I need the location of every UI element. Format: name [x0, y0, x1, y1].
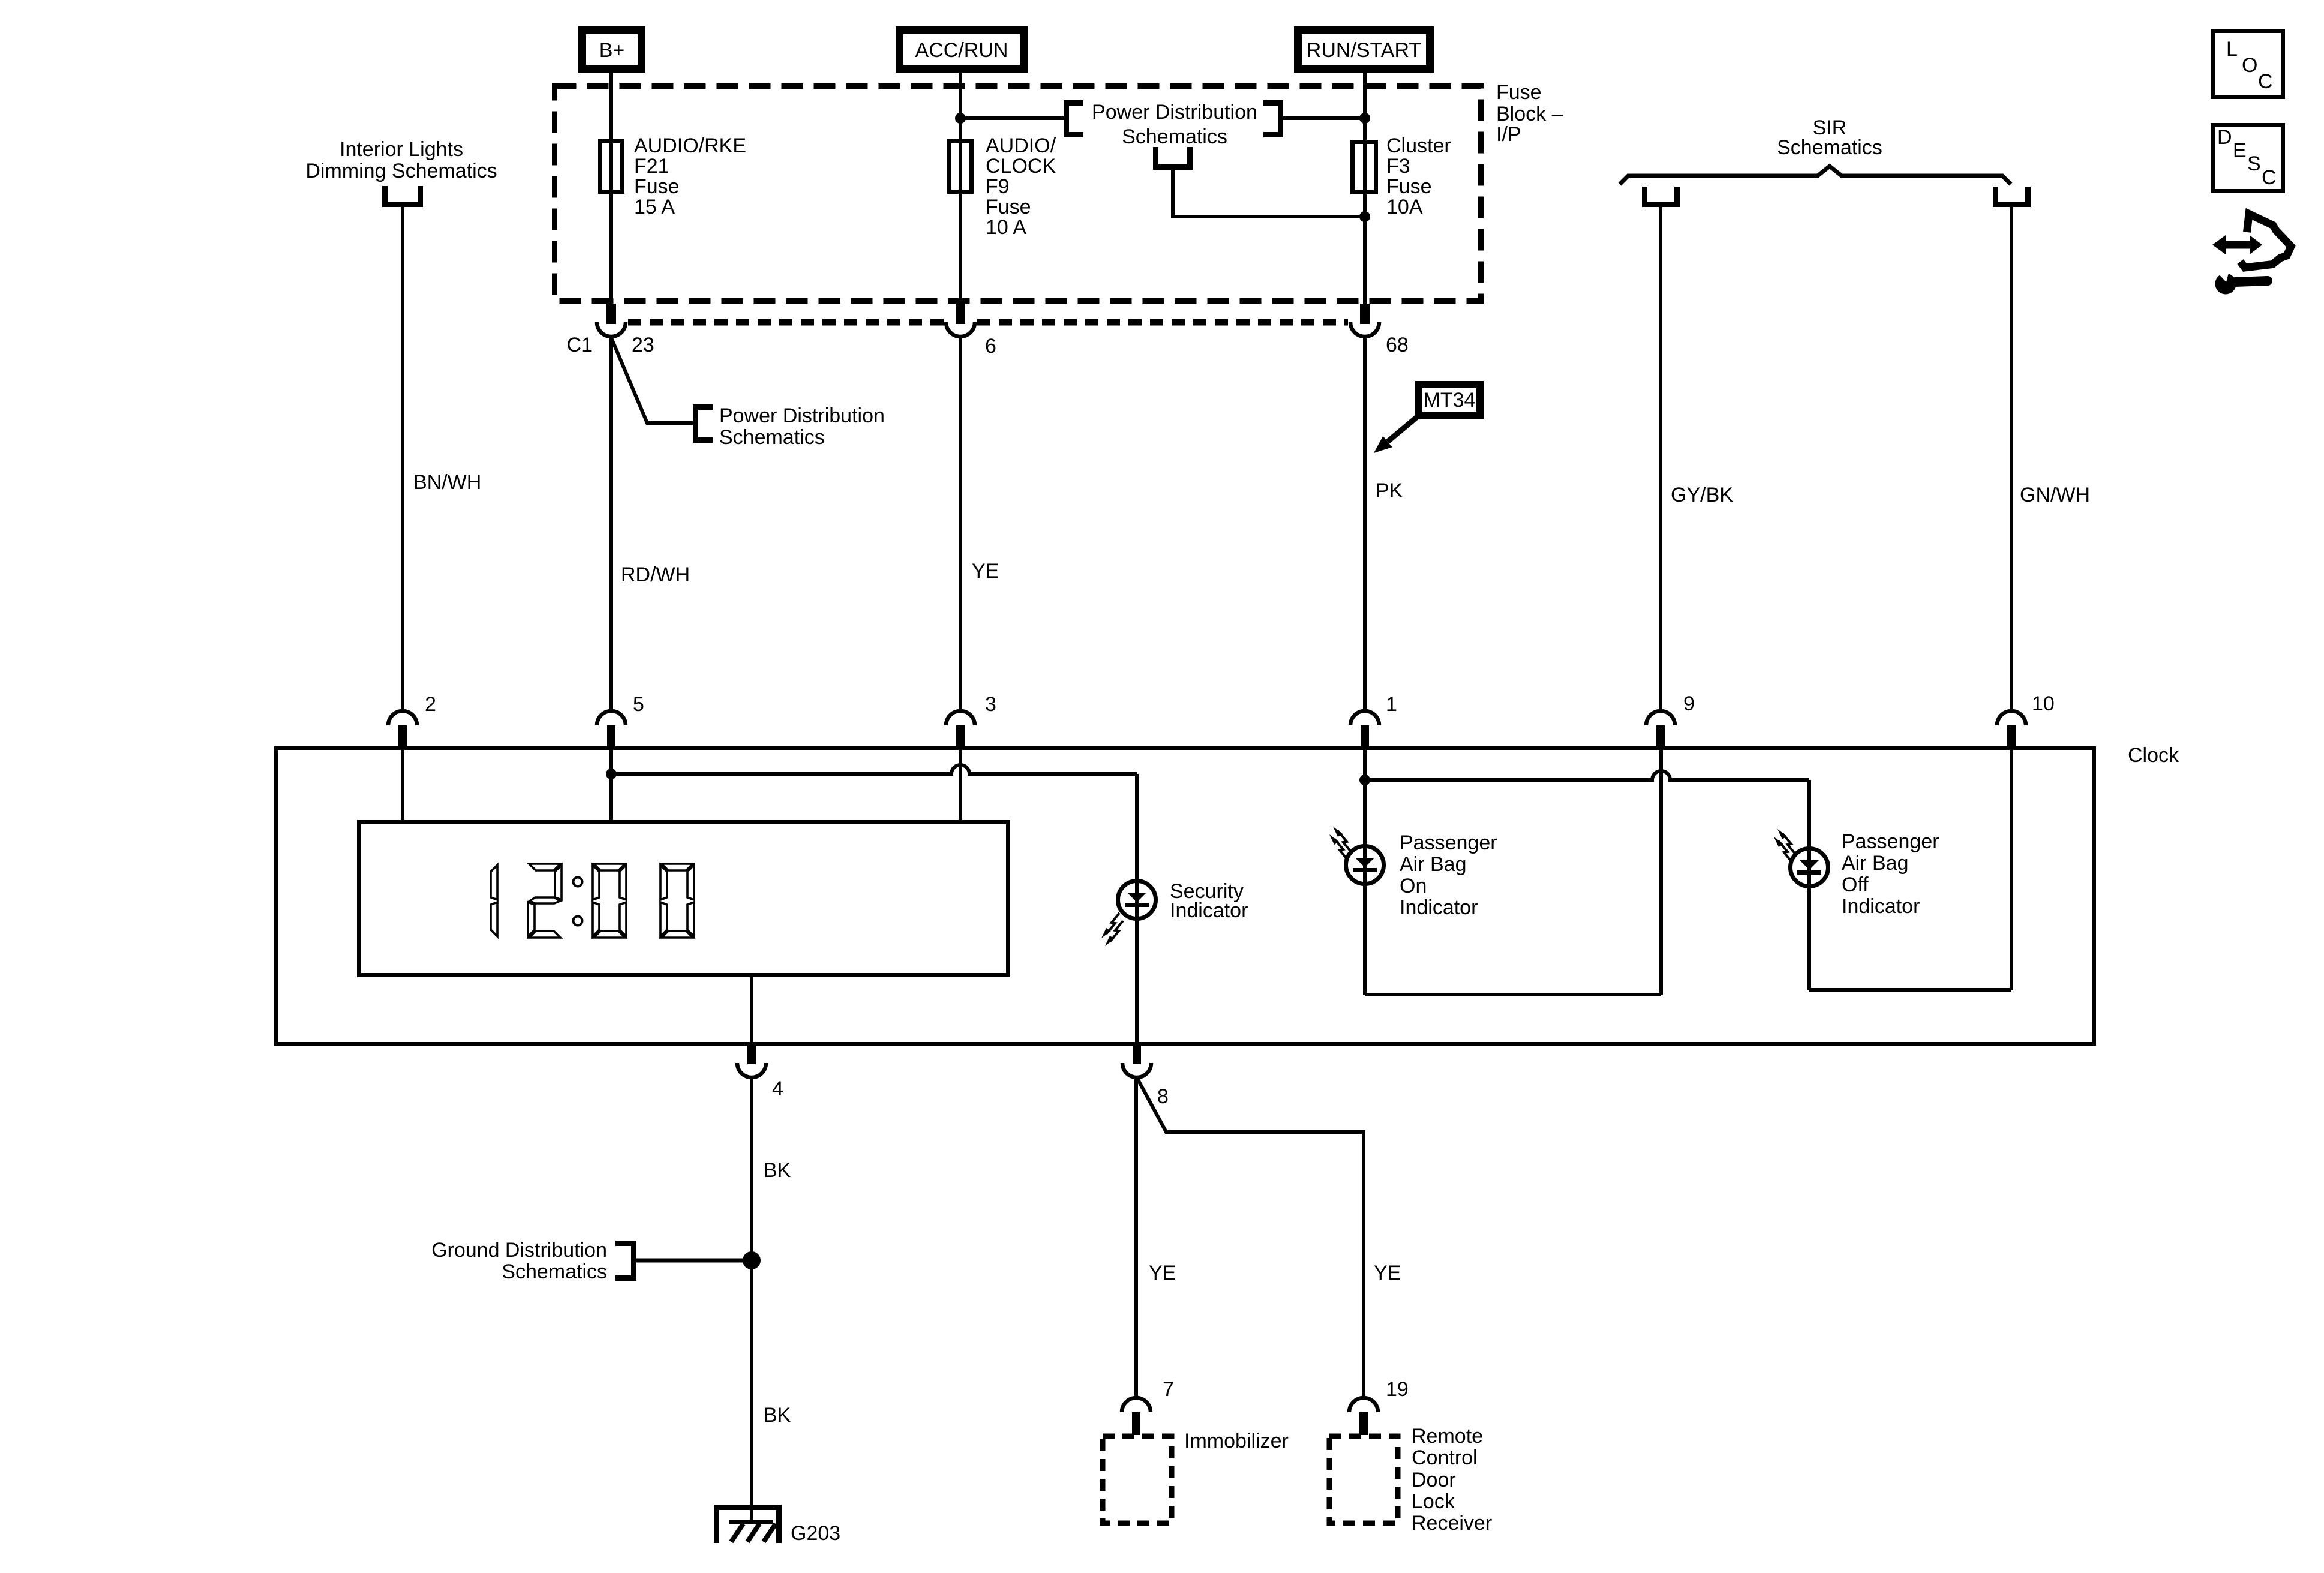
- bracket ground distribution: [615, 1244, 634, 1278]
- svg-text:Indicator: Indicator: [1400, 896, 1478, 919]
- bracket power distribution schematics mid: [696, 407, 713, 440]
- pin 9 clock terminal: [1646, 692, 1695, 747]
- label Security Indicator: [1170, 880, 1248, 922]
- svg-text:CLOCK: CLOCK: [986, 155, 1056, 178]
- label Interior Lights Dimming Schematics: [305, 138, 497, 182]
- pin 2 clock terminal: [388, 693, 436, 747]
- svg-text:Control: Control: [1412, 1446, 1478, 1469]
- svg-text:68: 68: [1386, 334, 1409, 356]
- wire air bag on loop bottom to pin 9: [1365, 993, 1661, 996]
- svg-text:BN/WH: BN/WH: [413, 471, 481, 494]
- LED passenger air bag off indicator: [1791, 849, 1828, 887]
- clock module box: [276, 744, 2179, 1044]
- svg-text:9: 9: [1683, 692, 1695, 715]
- label SIR Schematics: [1777, 116, 1882, 159]
- svg-text:7: 7: [1163, 1378, 1174, 1401]
- pin 8 clock terminal: [1122, 1046, 1169, 1108]
- node junction pin 5 branch: [606, 769, 617, 779]
- seven segment digit 3: [593, 864, 626, 938]
- wire BN/WH interior lights to pin 2: [401, 207, 404, 712]
- svg-text:Schematics: Schematics: [1122, 125, 1227, 148]
- LED security indicator: [1118, 881, 1156, 919]
- svg-text:1: 1: [1386, 693, 1397, 716]
- svg-text:GY/BK: GY/BK: [1671, 484, 1733, 506]
- svg-text:Remote: Remote: [1412, 1425, 1483, 1448]
- colon: [574, 878, 582, 926]
- svg-text:Schematics: Schematics: [719, 426, 825, 449]
- svg-text:Passenger: Passenger: [1842, 830, 1939, 853]
- svg-text:Schematics: Schematics: [502, 1260, 607, 1283]
- pin C1-6 connector terminal: [946, 304, 996, 358]
- pin 4 clock terminal: [737, 1046, 783, 1100]
- label GN/WH: [2020, 484, 2090, 506]
- wire GY/BK to pin 9: [1659, 207, 1662, 712]
- svg-text:Lock: Lock: [1412, 1490, 1455, 1513]
- label PK: [1376, 479, 1403, 502]
- LED passenger air bag on indicator: [1346, 846, 1384, 884]
- bracket left power distribution: [1067, 103, 1084, 135]
- wire security indicator branch: [1135, 774, 1139, 1044]
- wire pin 3 to display: [959, 748, 962, 820]
- wire pin 2 to display: [401, 748, 404, 820]
- svg-text:Door: Door: [1412, 1469, 1456, 1491]
- pin 10 clock terminal: [1997, 692, 2055, 747]
- label Power Distribution Schematics mid: [719, 404, 885, 449]
- bracket cup SIR left: [1645, 187, 1677, 205]
- svg-text:Schematics: Schematics: [1777, 136, 1882, 159]
- svg-text:19: 19: [1386, 1378, 1409, 1401]
- wire bracket to BK wire: [636, 1259, 752, 1263]
- fuse F3 Cluster 10A: [1353, 134, 1451, 218]
- svg-text:6: 6: [985, 335, 996, 358]
- wire to power distribution bracket: [960, 116, 1064, 120]
- pin 1 clock terminal: [1350, 693, 1397, 747]
- wire air bag off branch down: [1807, 780, 1811, 990]
- svg-text:Fuse: Fuse: [634, 175, 680, 198]
- seven segment digit 4: [660, 864, 694, 938]
- label Ground Distribution Schematics: [431, 1239, 607, 1283]
- svg-text:B+: B+: [599, 39, 625, 62]
- svg-text:YE: YE: [1374, 1262, 1401, 1284]
- wire PK fuse F3 to pin 1: [1363, 337, 1367, 712]
- brace SIR schematics: [1620, 166, 2011, 184]
- arrows air bag off LED light emission: [1774, 829, 1795, 862]
- svg-text:Air Bag: Air Bag: [1842, 852, 1909, 875]
- connector C1 dashed line: [628, 319, 1348, 326]
- wire RUN/START feed: [1363, 69, 1367, 304]
- svg-text:G203: G203: [791, 1522, 840, 1545]
- label BK lower: [764, 1404, 791, 1427]
- label YE right: [1374, 1262, 1401, 1284]
- node junction lower on RUN/START wire: [1359, 211, 1370, 222]
- svg-text:Dimming Schematics: Dimming Schematics: [305, 160, 497, 182]
- svg-text:RUN/START: RUN/START: [1307, 39, 1421, 62]
- bracket right power distribution: [1263, 103, 1281, 135]
- pin 5 clock terminal: [597, 693, 644, 747]
- icon DESC box: [2213, 125, 2283, 191]
- display module box: [359, 822, 1008, 975]
- fuse F9 AUDIO/CLOCK 10A: [950, 134, 1056, 239]
- power terminal B+: [582, 31, 642, 69]
- svg-text:S: S: [2247, 152, 2261, 175]
- arrow MT34 pointer: [1374, 417, 1417, 453]
- svg-text:Receiver: Receiver: [1412, 1512, 1492, 1535]
- wire air bag off loop bottom to pin 10: [1809, 988, 2011, 992]
- svg-text:10A: 10A: [1386, 196, 1423, 218]
- icon LOC box: [2213, 31, 2283, 97]
- label GY/BK: [1671, 484, 1733, 506]
- label YE: [972, 560, 999, 583]
- svg-text:C: C: [2262, 166, 2277, 189]
- svg-text:C1: C1: [567, 334, 593, 356]
- label Fuse Block - I/P: [1496, 81, 1563, 146]
- node junction on ACC/RUN wire: [955, 113, 966, 124]
- svg-text:E: E: [2233, 139, 2247, 162]
- label Remote Control Door Lock Receiver: [1412, 1425, 1492, 1535]
- pin C1-68 connector terminal: [1350, 304, 1409, 356]
- pin C1-23 connector terminal: [567, 304, 654, 356]
- svg-text:Off: Off: [1842, 873, 1869, 896]
- svg-text:Cluster: Cluster: [1386, 134, 1451, 157]
- svg-text:Clock: Clock: [2128, 744, 2179, 767]
- arrows security LED light emission: [1101, 913, 1123, 946]
- remote control door lock receiver dashed box: [1329, 1436, 1398, 1523]
- label BN/WH: [413, 471, 481, 494]
- svg-text:10: 10: [2032, 692, 2055, 715]
- svg-text:5: 5: [633, 693, 644, 716]
- wire PK pin 1 through air bag on indicator: [1363, 748, 1367, 995]
- wire pin 5 to display: [609, 748, 613, 820]
- label Passenger Air Bag On Indicator: [1400, 831, 1497, 919]
- svg-text:L: L: [2226, 38, 2238, 61]
- svg-text:3: 3: [985, 693, 996, 716]
- pin 3 clock terminal: [946, 693, 996, 747]
- fuse block I/P dashed enclosure: [555, 86, 1481, 301]
- bracket cup below power distribution label: [1156, 147, 1190, 167]
- wire B+ feed: [609, 69, 613, 304]
- bracket cup SIR right: [1996, 187, 2028, 205]
- svg-text:2: 2: [425, 693, 436, 716]
- svg-text:AUDIO/RKE: AUDIO/RKE: [634, 134, 746, 157]
- svg-text:PK: PK: [1376, 479, 1403, 502]
- svg-text:Power Distribution: Power Distribution: [1092, 101, 1257, 124]
- wire pin 9 inside clock: [1659, 748, 1663, 995]
- seven segment digit 1: [491, 865, 497, 936]
- svg-text:Passenger: Passenger: [1400, 831, 1497, 854]
- svg-text:Air Bag: Air Bag: [1400, 853, 1467, 876]
- svg-text:Immobilizer: Immobilizer: [1184, 1430, 1289, 1452]
- wire YE pin 8 to pin 7: [1134, 1077, 1138, 1398]
- wire display to pin 4: [750, 977, 753, 1044]
- label BK upper: [764, 1159, 791, 1182]
- wire pin5 junction to security indicator with hop over pin3 wire: [611, 765, 1137, 774]
- svg-text:F21: F21: [634, 155, 669, 178]
- svg-text:D: D: [2217, 126, 2232, 149]
- svg-text:F9: F9: [986, 175, 1010, 198]
- icon navigation arrow with wrench: [2210, 214, 2291, 295]
- svg-text:Ground Distribution: Ground Distribution: [431, 1239, 607, 1262]
- svg-text:RD/WH: RD/WH: [621, 563, 690, 586]
- svg-text:I/P: I/P: [1496, 123, 1521, 146]
- node junction on RUN/START wire: [1359, 113, 1370, 124]
- wire PK junction to air bag off with hop over pin 9 wire: [1365, 771, 1809, 780]
- wire BK pin 4 to ground: [750, 1077, 753, 1524]
- svg-text:BK: BK: [764, 1404, 791, 1427]
- svg-text:23: 23: [632, 334, 654, 356]
- svg-text:C: C: [2258, 70, 2273, 93]
- node junction PK split: [1359, 775, 1370, 785]
- svg-text:Fuse: Fuse: [1496, 81, 1542, 104]
- svg-text:Fuse: Fuse: [986, 196, 1031, 218]
- svg-text:Interior Lights: Interior Lights: [340, 138, 463, 161]
- wire ACC/RUN feed: [959, 69, 962, 304]
- svg-text:8: 8: [1157, 1085, 1169, 1108]
- pin 19 remote receiver terminal: [1349, 1378, 1409, 1435]
- wire diagonal to power distribution bracket: [611, 338, 693, 423]
- power terminal RUN/START: [1298, 31, 1430, 69]
- arrows air bag on LED light emission: [1329, 827, 1351, 860]
- svg-text:10 A: 10 A: [986, 216, 1026, 239]
- svg-text:Fuse: Fuse: [1386, 175, 1432, 198]
- node junction ground wire: [743, 1251, 761, 1269]
- svg-text:15 A: 15 A: [634, 196, 675, 218]
- callout box MT34: [1419, 385, 1480, 415]
- svg-text:YE: YE: [972, 560, 999, 583]
- wire RD/WH fuse F21 to pin 5: [609, 337, 613, 712]
- pin 7 immobilizer terminal: [1122, 1378, 1174, 1435]
- wire cup down and over to RUN/START: [1173, 170, 1365, 217]
- svg-text:Block –: Block –: [1496, 103, 1563, 125]
- label Power Distribution Schematics top: [1092, 101, 1257, 148]
- wire pin 10 inside clock: [2010, 748, 2013, 990]
- svg-text:YE: YE: [1149, 1262, 1176, 1284]
- svg-text:Indicator: Indicator: [1170, 899, 1248, 922]
- svg-text:On: On: [1400, 875, 1427, 897]
- immobilizer dashed box: [1103, 1436, 1172, 1523]
- label YE left: [1149, 1262, 1176, 1284]
- svg-text:Power Distribution: Power Distribution: [719, 404, 885, 427]
- fuse F21 AUDIO/RKE 15A: [600, 134, 747, 218]
- svg-text:MT34: MT34: [1424, 389, 1476, 412]
- svg-text:AUDIO/: AUDIO/: [986, 134, 1056, 157]
- label Passenger Air Bag Off Indicator: [1842, 830, 1939, 918]
- svg-text:F3: F3: [1386, 155, 1410, 178]
- seven segment digit 2: [528, 864, 562, 938]
- svg-text:GN/WH: GN/WH: [2020, 484, 2090, 506]
- wire YE fuse F9 to pin 3: [959, 337, 962, 712]
- power terminal ACC/RUN: [900, 31, 1024, 69]
- wire YE branch pin 8 to pin 19: [1137, 1079, 1364, 1398]
- svg-text:4: 4: [772, 1077, 783, 1100]
- svg-text:O: O: [2242, 54, 2257, 77]
- svg-text:Indicator: Indicator: [1842, 895, 1920, 918]
- wire bracket to RUN/START: [1283, 116, 1365, 120]
- svg-text:BK: BK: [764, 1159, 791, 1182]
- label RD/WH: [621, 563, 690, 586]
- ground G203: [714, 1505, 840, 1545]
- svg-text:ACC/RUN: ACC/RUN: [915, 39, 1008, 62]
- bracket cup interior lights: [385, 186, 421, 205]
- label Immobilizer: [1184, 1430, 1289, 1452]
- wire GN/WH to pin 10: [2010, 207, 2013, 712]
